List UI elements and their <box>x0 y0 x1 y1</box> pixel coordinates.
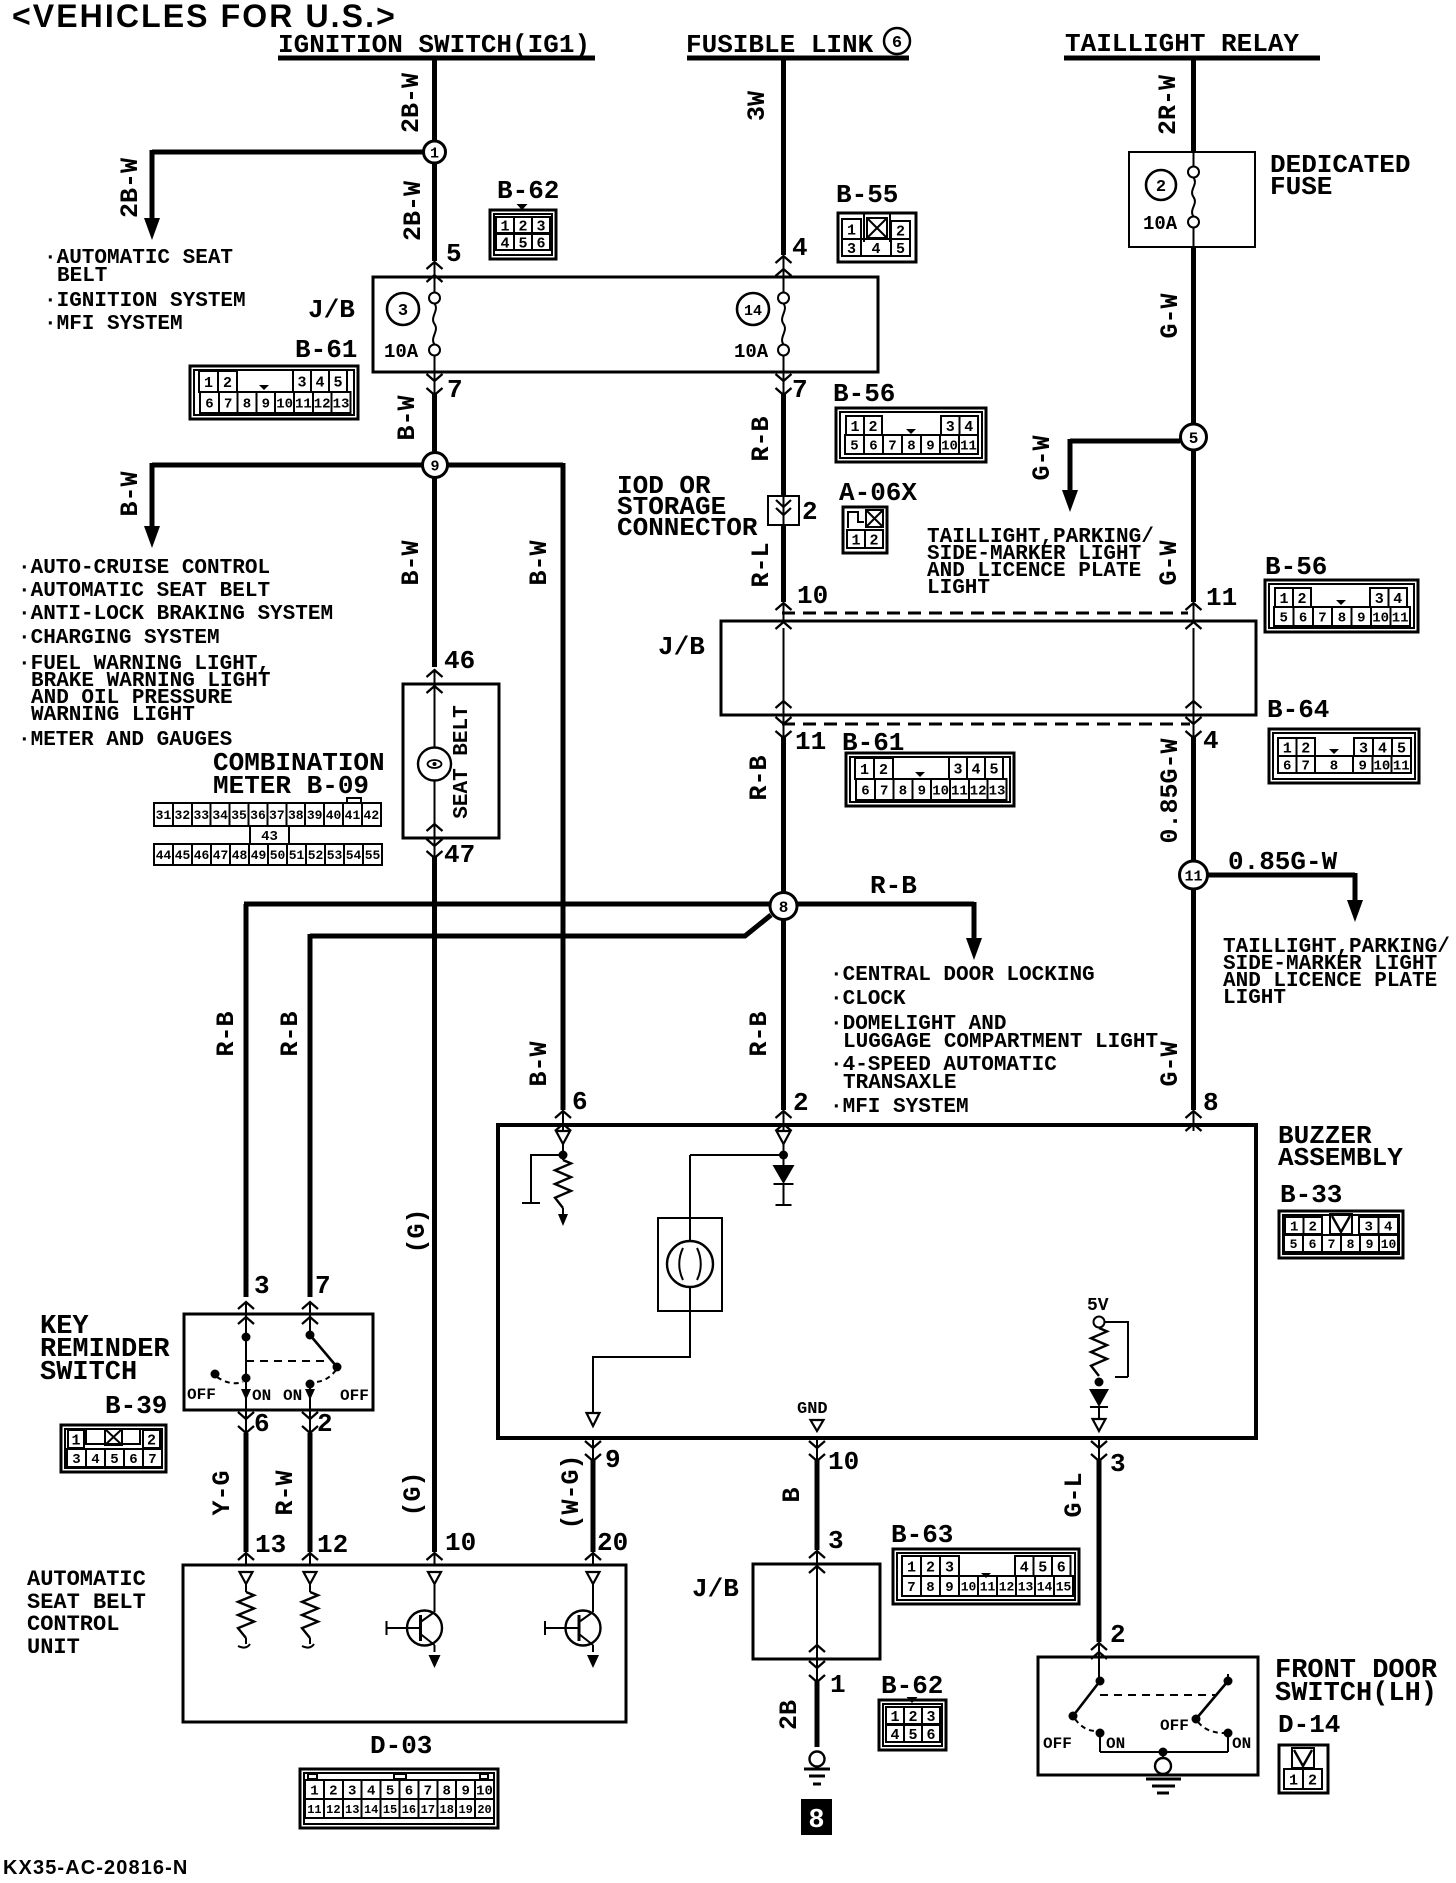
svg-text:2: 2 <box>1110 1620 1126 1650</box>
svg-text:3: 3 <box>72 1452 80 1468</box>
svg-text:R-L: R-L <box>747 542 776 587</box>
svg-text:10A: 10A <box>734 341 769 363</box>
svg-text:2: 2 <box>518 218 527 235</box>
svg-text:6: 6 <box>129 1452 137 1468</box>
svg-text:1: 1 <box>847 222 856 239</box>
key reminder OFF ON labels <box>187 1386 369 1405</box>
svg-text:G-W: G-W <box>1028 435 1057 480</box>
svg-text:3: 3 <box>1375 591 1384 608</box>
svg-text:R-B: R-B <box>745 755 774 800</box>
svg-text:B-W: B-W <box>397 540 426 585</box>
key reminder switch label <box>40 1312 170 1388</box>
svg-text:Y-G: Y-G <box>208 1470 237 1515</box>
svg-text:(G): (G) <box>399 1471 428 1516</box>
svg-text:1: 1 <box>860 762 869 779</box>
pin 12 control unit <box>317 1530 348 1560</box>
node 9 <box>423 453 448 478</box>
svg-text:·CHARGING SYSTEM: ·CHARGING SYSTEM <box>18 627 220 650</box>
wire Y-G to control unit pin 13 <box>208 1433 254 1566</box>
svg-text:1: 1 <box>907 1559 916 1576</box>
svg-text:8: 8 <box>907 439 915 455</box>
svg-text:2B-W: 2B-W <box>116 158 145 218</box>
svg-text:13: 13 <box>255 1530 286 1560</box>
buzzer 5V circuit <box>1087 1296 1128 1431</box>
wire (W-G) to control unit pin 20 <box>557 1454 601 1566</box>
svg-text:2: 2 <box>926 1559 935 1576</box>
svg-text:48: 48 <box>232 848 248 863</box>
fuse 14 10A <box>734 277 789 372</box>
front door switch poles <box>1069 1674 1233 1757</box>
svg-text:1: 1 <box>500 218 509 235</box>
svg-text:8: 8 <box>1338 611 1346 627</box>
node 8 <box>770 893 797 920</box>
svg-text:3: 3 <box>953 761 962 778</box>
svg-text:7: 7 <box>447 375 463 405</box>
svg-text:11: 11 <box>951 784 968 800</box>
wire 0.85G-W J/B to node 11 <box>1156 737 1194 862</box>
svg-text:5: 5 <box>110 1452 118 1468</box>
pin 3 buzzer right <box>1091 1438 1126 1479</box>
connector B-09 row 44-55 <box>154 844 382 865</box>
svg-text:SWITCH(LH): SWITCH(LH) <box>1275 1679 1437 1709</box>
svg-text:6: 6 <box>1283 759 1291 775</box>
wire R-B node 8 to buzzer pin 2 <box>745 919 792 1131</box>
svg-text:5: 5 <box>850 439 858 455</box>
svg-text:12: 12 <box>317 1530 348 1560</box>
svg-text:4: 4 <box>1384 1220 1392 1236</box>
svg-text:11: 11 <box>960 439 977 455</box>
svg-text:8: 8 <box>443 1784 451 1800</box>
svg-text:·MFI SYSTEM: ·MFI SYSTEM <box>830 1096 969 1119</box>
svg-text:2: 2 <box>1156 178 1166 197</box>
buzzer input diode pin 2 <box>773 1131 795 1205</box>
svg-text:3: 3 <box>945 1559 954 1576</box>
connector B-62 <box>490 176 559 259</box>
svg-text:1: 1 <box>1279 591 1288 608</box>
svg-text:6: 6 <box>536 235 545 252</box>
pin 2 buzzer <box>793 1088 809 1118</box>
svg-text:7: 7 <box>907 1580 915 1596</box>
svg-text:10: 10 <box>445 1528 476 1558</box>
svg-text:(W-G): (W-G) <box>557 1454 586 1529</box>
IOD connector symbol A-06X pin 2 <box>768 496 818 527</box>
junction block J/B middle <box>658 613 1256 724</box>
svg-text:1: 1 <box>430 145 439 162</box>
svg-text:47: 47 <box>213 848 229 863</box>
svg-text:4: 4 <box>315 374 324 391</box>
svg-text:3: 3 <box>297 374 306 391</box>
svg-text:5: 5 <box>386 1784 394 1800</box>
svg-text:9: 9 <box>605 1445 621 1475</box>
svg-text:13: 13 <box>345 1803 359 1817</box>
pin 7 left <box>427 372 463 405</box>
svg-text:2: 2 <box>1297 591 1306 608</box>
wire R-W to control unit pin 12 <box>271 1433 318 1566</box>
pin 10 buzzer gnd <box>809 1438 859 1477</box>
svg-text:3: 3 <box>828 1526 844 1556</box>
svg-text:7: 7 <box>424 1784 432 1800</box>
svg-text:2: 2 <box>868 419 877 436</box>
svg-text:R-B: R-B <box>747 416 776 461</box>
svg-text:METER B-09: METER B-09 <box>213 771 369 801</box>
svg-text:3: 3 <box>348 1784 356 1800</box>
svg-text:2: 2 <box>1308 1772 1317 1789</box>
connector D-03 <box>300 1731 498 1828</box>
svg-text:OFF: OFF <box>340 1387 369 1405</box>
wire B-W J/B to node 9 <box>393 394 435 455</box>
svg-text:6: 6 <box>892 34 902 53</box>
svg-text:6: 6 <box>205 397 213 413</box>
svg-text:9: 9 <box>1357 611 1365 627</box>
junction block J/B <box>308 277 878 372</box>
footer part number <box>3 1857 188 1879</box>
svg-text:47: 47 <box>444 840 475 870</box>
svg-text:9: 9 <box>1358 759 1366 775</box>
buzzer lamp circuit <box>587 1155 780 1426</box>
svg-text:·ANTI-LOCK BRAKING SYSTEM: ·ANTI-LOCK BRAKING SYSTEM <box>18 603 333 626</box>
svg-text:4: 4 <box>890 1727 899 1744</box>
svg-text:SEAT BELT: SEAT BELT <box>451 705 474 818</box>
pin 1 J/B small <box>809 1659 846 1700</box>
pin 7 right <box>776 372 808 405</box>
wire 2B to body ground <box>775 1681 817 1747</box>
svg-text:7: 7 <box>1302 759 1310 775</box>
node 11 <box>1180 861 1208 889</box>
svg-text:12: 12 <box>314 397 331 413</box>
fuse 3 10A <box>384 277 440 372</box>
title VEHICLES FOR U.S. <box>12 0 397 34</box>
svg-text:1: 1 <box>204 375 213 392</box>
svg-text:0.85G-W: 0.85G-W <box>1156 738 1185 843</box>
svg-text:·METER AND GAUGES: ·METER AND GAUGES <box>18 729 232 752</box>
svg-text:14: 14 <box>744 303 762 320</box>
wire branch B-W right to buzzer pin 6 <box>447 463 571 1131</box>
svg-text:B-39: B-39 <box>105 1391 167 1421</box>
svg-text:3W: 3W <box>743 91 772 121</box>
svg-text:8: 8 <box>808 1806 824 1836</box>
svg-text:8: 8 <box>1347 1237 1355 1252</box>
key reminder switch poles <box>211 1314 342 1410</box>
svg-text:1: 1 <box>1283 740 1292 757</box>
svg-text:5: 5 <box>896 241 905 258</box>
svg-text:2: 2 <box>1309 1220 1317 1236</box>
svg-text:2: 2 <box>879 762 888 779</box>
svg-text:8: 8 <box>926 1580 934 1596</box>
svg-text:10A: 10A <box>1143 213 1178 235</box>
connector B-56 right <box>1265 552 1418 632</box>
wire 2R-W taillight relay to dedicated fuse <box>1154 58 1194 152</box>
svg-text:CONTROL: CONTROL <box>27 1612 119 1637</box>
svg-text:R-B: R-B <box>870 871 917 901</box>
svg-text:KX35-AC-20816-N: KX35-AC-20816-N <box>3 1857 188 1878</box>
svg-text:(G): (G) <box>403 1208 432 1253</box>
heading IGNITION SWITCH(IG1) <box>278 30 595 60</box>
pin 8 buzzer <box>1203 1088 1219 1118</box>
svg-text:1: 1 <box>890 1709 899 1726</box>
svg-text:4: 4 <box>500 235 509 252</box>
svg-text:OFF: OFF <box>1160 1717 1189 1735</box>
svg-text:41: 41 <box>345 808 361 823</box>
wire 2B-W node 1 to J/B pin 5 <box>399 163 443 282</box>
pin 2 front door switch <box>1110 1620 1126 1650</box>
svg-text:ON: ON <box>252 1387 271 1405</box>
pin 2 key reminder <box>302 1409 333 1439</box>
svg-text:BELT: BELT <box>57 265 107 288</box>
svg-text:31: 31 <box>156 808 172 823</box>
pin 5 <box>446 239 462 269</box>
wire G-W fuse to node 5 <box>1156 247 1194 426</box>
svg-text:11: 11 <box>1393 759 1410 775</box>
svg-text:LIGHT: LIGHT <box>1223 987 1286 1010</box>
svg-text:9: 9 <box>926 439 934 455</box>
svg-text:38: 38 <box>288 808 304 823</box>
svg-text:B-W: B-W <box>525 1041 554 1086</box>
svg-text:10: 10 <box>828 1447 859 1477</box>
svg-text:3: 3 <box>926 1709 935 1726</box>
svg-text:UNIT: UNIT <box>27 1635 80 1660</box>
svg-text:11: 11 <box>980 1580 996 1595</box>
svg-text:OFF: OFF <box>187 1386 216 1404</box>
seat belt lamp unit <box>403 684 499 838</box>
buzzer GND pin <box>797 1400 828 1431</box>
pin 3 J/B small <box>828 1526 844 1556</box>
svg-text:9: 9 <box>1366 1237 1374 1252</box>
svg-text:1: 1 <box>71 1432 80 1449</box>
connector B-09 pin 43 <box>250 826 289 845</box>
svg-text:B-63: B-63 <box>891 1520 953 1550</box>
svg-text:20: 20 <box>597 1528 628 1558</box>
svg-text:1: 1 <box>1290 1220 1298 1236</box>
svg-text:45: 45 <box>175 848 191 863</box>
svg-text:1: 1 <box>310 1784 318 1800</box>
svg-text:R-B: R-B <box>745 1011 774 1056</box>
svg-text:39: 39 <box>307 808 323 823</box>
svg-text:·AUTO-CRUISE CONTROL: ·AUTO-CRUISE CONTROL <box>18 557 270 580</box>
svg-text:2R-W: 2R-W <box>1154 75 1183 135</box>
svg-text:6: 6 <box>1299 611 1307 627</box>
svg-text:4: 4 <box>1203 726 1219 756</box>
wire B-W node 9 to seat belt lamp 46 <box>397 477 443 684</box>
svg-text:B-61: B-61 <box>295 335 357 365</box>
svg-text:5: 5 <box>989 761 998 778</box>
svg-text:9: 9 <box>262 397 270 413</box>
systems list: auto-cruise etc <box>18 557 333 752</box>
connector B-61 <box>190 335 358 419</box>
svg-text:51: 51 <box>289 848 305 863</box>
svg-text:10: 10 <box>961 1580 977 1595</box>
svg-text:2: 2 <box>147 1432 156 1449</box>
svg-text:B-W: B-W <box>525 540 554 585</box>
svg-text:43: 43 <box>261 829 278 845</box>
svg-text:8: 8 <box>899 784 907 800</box>
svg-text:5: 5 <box>1397 740 1406 757</box>
svg-text:1: 1 <box>1289 1772 1298 1789</box>
pin 10 control unit <box>445 1528 476 1558</box>
svg-text:7: 7 <box>224 397 232 413</box>
svg-text:18: 18 <box>440 1803 454 1817</box>
pin 13 control unit <box>255 1530 286 1560</box>
svg-text:2: 2 <box>896 223 905 240</box>
svg-text:R-B: R-B <box>276 1011 305 1056</box>
svg-text:G-L: G-L <box>1060 1472 1089 1517</box>
svg-text:·CLOCK: ·CLOCK <box>830 988 906 1011</box>
svg-text:53: 53 <box>327 848 343 863</box>
svg-text:AUTOMATIC: AUTOMATIC <box>27 1567 146 1592</box>
svg-text:6: 6 <box>405 1784 413 1800</box>
svg-text:7: 7 <box>888 439 896 455</box>
svg-text:10: 10 <box>1374 759 1391 775</box>
svg-text:OFF: OFF <box>1043 1735 1072 1753</box>
svg-text:46: 46 <box>194 848 210 863</box>
svg-text:8: 8 <box>779 899 789 917</box>
svg-text:10: 10 <box>476 1784 493 1800</box>
svg-text:10: 10 <box>276 397 293 413</box>
svg-text:R-B: R-B <box>212 1011 241 1056</box>
svg-text:11: 11 <box>307 1803 321 1817</box>
svg-text:37: 37 <box>269 808 285 823</box>
svg-text:B-W: B-W <box>393 395 422 440</box>
svg-text:4: 4 <box>871 241 880 258</box>
junction block J/B small <box>692 1564 880 1659</box>
svg-text:D-03: D-03 <box>370 1731 432 1761</box>
svg-text:9: 9 <box>918 784 926 800</box>
svg-text:3: 3 <box>946 419 955 436</box>
svg-text:CONNECTOR: CONNECTOR <box>617 513 758 543</box>
svg-text:55: 55 <box>365 848 381 863</box>
svg-text:J/B: J/B <box>692 1574 739 1604</box>
pin 47 <box>427 838 476 870</box>
svg-text:33: 33 <box>193 808 209 823</box>
svg-text:17: 17 <box>421 1803 435 1817</box>
connector B-09 row 31-42 <box>154 798 381 826</box>
front door switch label <box>1275 1656 1438 1709</box>
svg-text:3: 3 <box>1110 1449 1126 1479</box>
svg-text:2: 2 <box>317 1409 333 1439</box>
svg-text:5: 5 <box>1290 1237 1298 1252</box>
control unit resistor pin 12 <box>302 1572 318 1648</box>
svg-text:9: 9 <box>461 1784 469 1800</box>
connector B-64 <box>1267 695 1419 783</box>
svg-text:1: 1 <box>851 532 860 549</box>
svg-text:15: 15 <box>383 1803 397 1817</box>
svg-text:5V: 5V <box>1087 1296 1109 1316</box>
svg-text:WARNING LIGHT: WARNING LIGHT <box>31 704 195 727</box>
svg-text:4: 4 <box>1393 591 1402 608</box>
svg-text:36: 36 <box>250 808 266 823</box>
svg-text:ON: ON <box>1106 1735 1125 1753</box>
pin 46 <box>444 646 475 676</box>
systems list: central door locking etc <box>830 964 1158 1119</box>
svg-text:5: 5 <box>1189 430 1199 448</box>
svg-text:52: 52 <box>308 848 324 863</box>
svg-text:2: 2 <box>1301 740 1310 757</box>
wire B buzzer to J/B <box>778 1460 825 1564</box>
svg-text:20: 20 <box>477 1803 491 1817</box>
svg-text:35: 35 <box>231 808 247 823</box>
svg-text:7: 7 <box>1328 1237 1336 1252</box>
dedicated fuse box <box>1129 150 1410 247</box>
svg-text:5: 5 <box>1038 1559 1047 1576</box>
body ground <box>804 1752 830 1785</box>
svg-text:0.85G-W: 0.85G-W <box>1228 847 1338 877</box>
svg-text:J/B: J/B <box>308 295 355 325</box>
svg-text:7: 7 <box>880 784 888 800</box>
svg-text:SWITCH: SWITCH <box>40 1358 137 1388</box>
automatic seat belt control unit label <box>27 1567 146 1660</box>
connector B-56 <box>833 379 986 462</box>
svg-text:3: 3 <box>1359 740 1368 757</box>
svg-text:13: 13 <box>989 784 1006 800</box>
svg-text:B-33: B-33 <box>1280 1180 1342 1210</box>
front door switch OFF ON labels <box>1043 1717 1251 1753</box>
control unit transistor pin 20 <box>545 1572 601 1668</box>
svg-text:49: 49 <box>251 848 267 863</box>
IOD or storage connector label <box>617 471 758 543</box>
buzzer assembly box <box>498 1121 1403 1438</box>
svg-text:6: 6 <box>254 1409 270 1439</box>
svg-text:10A: 10A <box>384 341 419 363</box>
wire G-W node 11 to buzzer pin 8 <box>1156 889 1202 1131</box>
wire branch 2B-W to automatic seat belt systems <box>116 150 424 240</box>
svg-text:·MFI SYSTEM: ·MFI SYSTEM <box>44 313 183 336</box>
svg-text:2: 2 <box>908 1709 917 1726</box>
svg-text:12: 12 <box>970 784 987 800</box>
svg-text:7: 7 <box>1318 611 1326 627</box>
svg-text:10: 10 <box>941 439 958 455</box>
svg-text:46: 46 <box>444 646 475 676</box>
svg-text:10: 10 <box>1381 1237 1397 1252</box>
svg-text:R-W: R-W <box>271 1470 300 1515</box>
pin 11 J/B top <box>1206 583 1237 613</box>
svg-text:2: 2 <box>793 1088 809 1118</box>
svg-text:9: 9 <box>430 458 439 475</box>
taillight parking side-marker list (lower) <box>1223 936 1450 1010</box>
svg-text:LIGHT: LIGHT <box>927 577 990 600</box>
svg-text:4: 4 <box>1020 1559 1029 1576</box>
svg-text:8: 8 <box>1330 759 1338 775</box>
svg-text:1: 1 <box>850 419 859 436</box>
svg-text:5: 5 <box>1279 611 1287 627</box>
svg-text:8: 8 <box>243 397 251 413</box>
svg-text:ASSEMBLY: ASSEMBLY <box>1278 1143 1403 1173</box>
svg-text:D-14: D-14 <box>1278 1710 1340 1740</box>
wire branch G-W to taillight parking lights <box>1028 435 1180 512</box>
svg-text:6: 6 <box>926 1727 935 1744</box>
svg-text:5: 5 <box>333 374 342 391</box>
svg-text:ON: ON <box>1232 1735 1251 1753</box>
svg-text:<VEHICLES FOR U.S.>: <VEHICLES FOR U.S.> <box>12 0 397 34</box>
svg-text:·IGNITION SYSTEM: ·IGNITION SYSTEM <box>44 290 246 313</box>
svg-text:TRANSAXLE: TRANSAXLE <box>843 1072 956 1095</box>
svg-text:3: 3 <box>536 218 545 235</box>
connector B-55 <box>836 180 916 262</box>
svg-text:5: 5 <box>518 235 527 252</box>
svg-text:FUSE: FUSE <box>1270 172 1332 202</box>
connector B-61 middle <box>842 728 1014 806</box>
svg-text:G-W: G-W <box>1156 293 1185 338</box>
svg-text:4: 4 <box>91 1452 99 1468</box>
front door switch ground <box>1146 1752 1181 1793</box>
svg-text:B-62: B-62 <box>881 1671 943 1701</box>
svg-text:9: 9 <box>945 1580 953 1596</box>
pin 11 J/B bottom left <box>776 715 827 757</box>
svg-text:4: 4 <box>367 1784 375 1800</box>
svg-text:TAILLIGHT RELAY: TAILLIGHT RELAY <box>1065 29 1299 59</box>
svg-text:7: 7 <box>315 1271 331 1301</box>
wire R-B J/B to node 8 <box>745 737 784 895</box>
svg-text:13: 13 <box>333 397 350 413</box>
svg-text:B: B <box>778 1487 807 1502</box>
